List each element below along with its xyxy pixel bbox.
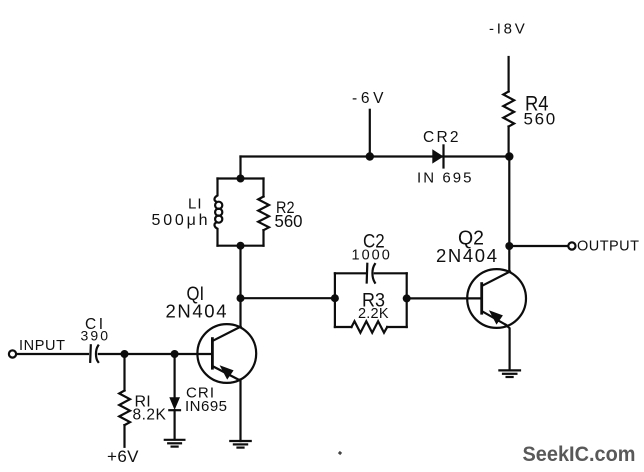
svg-text:2.2K: 2.2K bbox=[358, 306, 389, 322]
svg-text:IN695: IN695 bbox=[185, 398, 227, 415]
svg-text:2N404: 2N404 bbox=[436, 245, 497, 266]
svg-text:IN 695: IN 695 bbox=[417, 170, 472, 187]
svg-text:SeekIC.com: SeekIC.com bbox=[523, 442, 636, 466]
svg-text:560: 560 bbox=[275, 211, 303, 231]
svg-text:CR2: CR2 bbox=[423, 129, 459, 146]
svg-text:LI: LI bbox=[188, 196, 202, 213]
svg-text:OUTPUT: OUTPUT bbox=[577, 238, 639, 254]
svg-text:INPUT: INPUT bbox=[19, 338, 65, 354]
svg-text:2N404: 2N404 bbox=[166, 301, 227, 322]
svg-text:500μh: 500μh bbox=[152, 212, 208, 229]
svg-text:560: 560 bbox=[524, 110, 556, 129]
svg-text:390: 390 bbox=[81, 328, 109, 344]
svg-text:8.2K: 8.2K bbox=[133, 407, 167, 424]
svg-text:-6V: -6V bbox=[352, 90, 384, 107]
svg-text:+6V: +6V bbox=[107, 447, 139, 466]
